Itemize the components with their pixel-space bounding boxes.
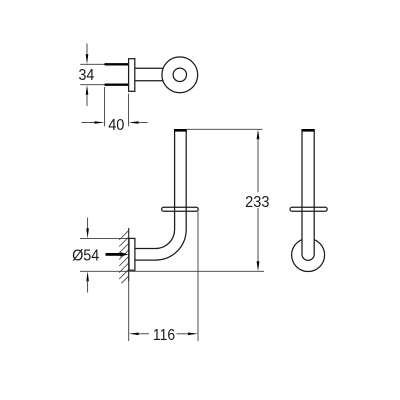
- flange disc side view: [290, 207, 327, 211]
- wall rosette front circle: [292, 239, 325, 272]
- svg-text:233: 233: [245, 194, 269, 211]
- screw stud lower: [103, 83, 129, 86]
- wall rosette side view: [129, 238, 135, 270]
- tube outer contour (bend): [135, 131, 186, 260]
- dimension 233 extension line top: [187, 128, 263, 130]
- arm tube top view: [135, 68, 164, 80]
- wall hatching: [119, 231, 129, 284]
- screw stud upper: [103, 63, 129, 66]
- flange disc front view: [162, 207, 199, 211]
- tube with rounded bottom end: [302, 131, 314, 261]
- dimension 34 extension lines: [80, 64, 104, 84]
- svg-text:40: 40: [108, 117, 125, 134]
- dimension 40 line and arrows: [82, 121, 148, 124]
- wall plate top view: [129, 59, 135, 92]
- flange disc top view: [162, 57, 198, 93]
- tube inner contour (bend): [135, 131, 175, 249]
- tube top cap side view: [302, 129, 315, 132]
- tube bore top view: [173, 68, 186, 81]
- tube top cap front view: [174, 129, 187, 132]
- dimension 34 line and arrows: [86, 44, 89, 107]
- svg-text:34: 34: [79, 67, 95, 84]
- leader arrow to rosette: [106, 252, 129, 256]
- dimension 40 extension lines: [105, 87, 129, 126]
- dimension Ø54 extension lines: [80, 238, 264, 271]
- svg-text:Ø54: Ø54: [72, 247, 100, 264]
- wall line: [128, 228, 130, 281]
- dimension Ø54 line and arrows: [86, 218, 89, 293]
- dimension 116 extension lines: [129, 212, 198, 342]
- dimension 233 line and arrows: [257, 129, 260, 271]
- svg-text:116: 116: [153, 327, 175, 344]
- dimension 116 line and arrows: [129, 333, 198, 336]
